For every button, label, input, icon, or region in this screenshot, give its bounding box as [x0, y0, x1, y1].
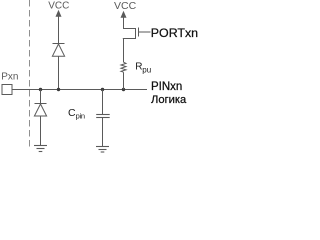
protection diode D1 to VCC (cathode up)	[52, 44, 64, 57]
Rpu label	[135, 61, 151, 74]
Cpin label	[68, 107, 85, 120]
wire from Cpin to ground	[102, 118, 104, 147]
svg-text:Логика: Логика	[151, 94, 187, 106]
dashed chip boundary line	[29, 0, 31, 150]
svg-text:pu: pu	[142, 66, 151, 75]
wire from D1 anode to pin node	[58, 56, 60, 89]
Pxn pad label	[1, 71, 18, 82]
Logic (Логика) label	[151, 94, 187, 106]
svg-text:Pxn: Pxn	[1, 71, 18, 82]
svg-text:PINxn: PINxn	[151, 81, 182, 93]
node: junction dot at Cpin	[101, 88, 104, 91]
svg-text:pin: pin	[76, 111, 85, 120]
VCC arrow symbol (left)	[56, 10, 62, 44]
svg-text:PORTxn: PORTxn	[151, 26, 198, 40]
PORTxn label	[151, 26, 198, 40]
wire from Rpu to pin node	[123, 72, 125, 89]
resistor Rpu (zigzag)	[121, 62, 126, 72]
VCC arrow symbol (right)	[121, 11, 127, 29]
node: junction dot at D2	[39, 88, 42, 91]
wire from D2 anode to ground	[40, 116, 42, 146]
pin wire (PINxn net)	[12, 89, 147, 91]
transistor gate bar	[138, 28, 140, 37]
protection diode D2 to GND (cathode up)	[34, 104, 46, 117]
svg-text:VCC: VCC	[48, 1, 69, 12]
wire from pin node down to Cpin	[102, 90, 104, 115]
svg-text:VCC: VCC	[114, 0, 137, 12]
ground symbol under Cpin	[96, 147, 109, 153]
wire from pin node down to D2 cathode	[40, 90, 42, 104]
pin pad box Pxn	[2, 85, 12, 95]
wire from transistor drain to Rpu	[123, 39, 125, 63]
capacitor Cpin	[96, 115, 110, 118]
node: junction dot at Rpu	[122, 88, 125, 91]
VCC label (right)	[114, 0, 137, 12]
PINxn label	[151, 81, 182, 93]
node: junction dot at D1	[57, 88, 60, 91]
pull-up PMOS transistor body	[123, 29, 136, 39]
VCC label (left)	[48, 1, 69, 12]
ground symbol under D2	[34, 146, 47, 152]
gate lead wire to PORTxn	[139, 31, 151, 33]
